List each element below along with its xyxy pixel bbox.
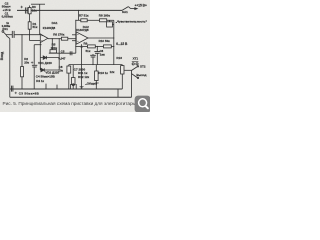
polarity plus C3 xyxy=(15,92,17,94)
connector XT1 jack xyxy=(132,66,139,98)
wire to inverting input xyxy=(30,40,41,42)
wire DA2 input stubs xyxy=(72,35,76,41)
svg-text:1мк: 1мк xyxy=(100,52,106,56)
svg-text:„Чувствительность“: „Чувствительность“ xyxy=(116,19,148,23)
op-amp DA1 xyxy=(40,34,48,43)
capacitor C6 xyxy=(94,46,100,64)
svg-text:R13: R13 xyxy=(116,56,122,60)
capacitor C1 plates xyxy=(12,31,14,38)
svg-text:10к: 10к xyxy=(58,69,63,73)
svg-text:12к: 12к xyxy=(110,70,115,74)
wire rail gap at C2 xyxy=(21,6,24,8)
svg-text:Выход: Выход xyxy=(136,73,146,77)
svg-text:R12 12к: R12 12к xyxy=(78,75,90,79)
svg-text:R8 160к: R8 160к xyxy=(99,14,111,18)
svg-text:К140УД8: К140УД8 xyxy=(43,26,56,30)
resistor R6 xyxy=(61,37,76,40)
resistor R8 xyxy=(100,19,114,24)
wire diode column xyxy=(39,43,41,70)
wire rail jog xyxy=(117,89,119,97)
svg-text:ХS1: ХS1 xyxy=(2,27,8,31)
resistor R11 xyxy=(67,65,71,89)
svg-text:SA1: SA1 xyxy=(122,10,128,14)
junction dots xyxy=(21,10,114,90)
wire DA2 ground column xyxy=(81,44,83,89)
wire tick xyxy=(56,85,58,89)
capacitor C5 plates xyxy=(70,51,72,55)
svg-text:С3 50мк×6В: С3 50мк×6В xyxy=(19,91,40,95)
wire output column xyxy=(113,24,115,64)
wire stub below DA1 xyxy=(34,45,41,65)
resistor R7 xyxy=(81,19,100,22)
capacitor C3 xyxy=(12,86,13,92)
ground mark xyxy=(80,46,83,47)
svg-text:R6 270к: R6 270к xyxy=(53,33,65,37)
ground symbol xyxy=(80,87,84,88)
resistor R9 xyxy=(88,45,104,48)
diode VD1 xyxy=(40,56,59,59)
diode VD2 xyxy=(40,68,59,71)
wire from rail to op-amp input xyxy=(39,10,41,34)
top power rail xyxy=(17,9,122,11)
svg-text:R7 51к: R7 51к xyxy=(79,14,89,18)
resistor R12 xyxy=(71,65,75,89)
connector XS1 xyxy=(2,31,7,36)
zoom button xyxy=(135,96,151,113)
wire bias top xyxy=(76,10,81,20)
svg-text:К140УД8: К140УД8 xyxy=(76,28,89,32)
svg-text:R13 1к: R13 1к xyxy=(98,71,108,75)
wire stub above rail xyxy=(31,3,45,5)
wire R9 R10 line xyxy=(76,45,88,47)
wire xyxy=(33,67,35,89)
polarity plus C4 xyxy=(31,61,33,63)
potentiometer R8 sens xyxy=(107,20,114,27)
bottom return rail xyxy=(10,96,132,98)
wire xyxy=(14,34,40,36)
paper background xyxy=(0,0,150,112)
svg-text:0...15 В: 0...15 В xyxy=(116,42,128,46)
wire bias column xyxy=(75,20,77,53)
wire DA2 output xyxy=(88,37,114,39)
wire feedback bottom xyxy=(49,52,76,54)
svg-text:51к: 51к xyxy=(33,25,38,29)
svg-text:20к: 20к xyxy=(24,60,29,64)
svg-text:„Общий“: „Общий“ xyxy=(85,81,99,85)
resistor R10 xyxy=(104,45,114,48)
svg-text:100к: 100к xyxy=(51,46,58,50)
svg-text:R9: R9 xyxy=(84,42,88,46)
svg-text:С5: С5 xyxy=(61,49,65,53)
input wire xyxy=(6,34,12,36)
capacitor C4 plates xyxy=(32,65,37,67)
capacitor C2 plates xyxy=(25,7,27,13)
svg-text:ХТ1: ХТ1 xyxy=(133,57,139,61)
svg-text:16к: 16к xyxy=(32,9,37,13)
svg-text:«+15 В»: «+15 В» xyxy=(135,3,147,7)
resistor R5 xyxy=(50,50,57,53)
wire to ground bus xyxy=(6,36,10,98)
svg-text:0,047: 0,047 xyxy=(58,57,65,61)
resistor R13a xyxy=(95,65,99,89)
wire to jack xyxy=(124,69,131,71)
op-amp DA2 xyxy=(76,32,88,44)
svg-text:51к: 51к xyxy=(86,49,91,53)
wire R2 branch xyxy=(21,35,23,67)
svg-text:0,033мк: 0,033мк xyxy=(2,15,14,19)
button SB1 contacts xyxy=(132,61,139,65)
resistor R2 xyxy=(21,67,24,89)
svg-text:Рис. 5. Принципиальная схема п: Рис. 5. Принципиальная схема приставки д… xyxy=(3,101,137,106)
connector XT2 common xyxy=(70,84,76,89)
wire detector branch xyxy=(58,39,60,70)
wire feedback drop xyxy=(51,39,53,50)
resistor R1 xyxy=(28,22,31,41)
ground rail xyxy=(10,88,123,90)
svg-text:R4 1к: R4 1к xyxy=(36,79,44,83)
capacitor C7 xyxy=(90,54,96,65)
wire xyxy=(39,4,41,10)
switch SA1 xyxy=(122,7,137,11)
wire DA1 output xyxy=(48,38,62,40)
wire bottom bus mid xyxy=(69,64,123,66)
svg-text:ХТ2: ХТ2 xyxy=(140,65,146,69)
wire to rail xyxy=(45,84,47,89)
svg-text:R10 50к: R10 50к xyxy=(99,39,111,43)
svg-text:VD1 Д220: VD1 Д220 xyxy=(38,61,52,65)
resistor R3 xyxy=(28,6,31,22)
svg-text:DA1: DA1 xyxy=(52,21,58,25)
svg-text:Вход: Вход xyxy=(0,51,4,60)
resistor R14 xyxy=(121,65,124,89)
